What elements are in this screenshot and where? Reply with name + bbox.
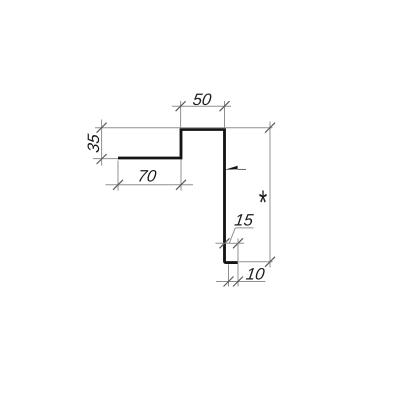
dimension 50: extension line left [180, 101, 182, 129]
dimension 10: tick left [224, 277, 234, 287]
dimension *: extension line bottom [239, 261, 273, 263]
profile outline (thick sheet-metal section) [118, 130, 238, 263]
dimension 70: extension line right [180, 160, 182, 191]
dimension *: tick top [265, 123, 275, 133]
dimension 10: dimension line [216, 281, 266, 283]
dimension 50: tick left [176, 101, 186, 111]
dimension 10: tick right [233, 277, 243, 287]
dimension 10: extension line left [228, 265, 230, 287]
dimension 70: tick right [176, 180, 186, 190]
extension line, top (shared by dim 35 and dim *) [95, 127, 273, 129]
dimension 35: tick bottom [97, 154, 107, 164]
dimension 35: dimension line [101, 120, 103, 166]
dimension 70: dimension line [106, 184, 194, 186]
dimension 15: leader shelf [235, 227, 253, 229]
extension line, bottom of dim 35 [93, 158, 118, 160]
dimension *: tick bottom [265, 257, 275, 267]
svg-text:70: 70 [137, 167, 159, 186]
dimension 15: tick left [220, 238, 230, 248]
dimension *: dimension line [269, 122, 271, 268]
dimension 70: extension line left [117, 161, 119, 191]
svg-text:15: 15 [233, 211, 255, 230]
svg-text:35: 35 [84, 132, 103, 154]
dimension 35: tick top [97, 123, 107, 133]
svg-text:50: 50 [192, 90, 214, 109]
dimension 50: dimension line [172, 105, 231, 107]
dimension 50: extension line right [224, 101, 226, 129]
dimension 15: dimension line [216, 242, 245, 244]
svg-text:*: * [258, 183, 267, 221]
material-side arrow marker [225, 166, 238, 170]
dimension 50: tick right [220, 101, 230, 111]
dimension 15: leader diagonal [229, 228, 235, 243]
dimension 15: tick right [233, 238, 243, 248]
dimension 70: tick left [113, 180, 123, 190]
shared extension line at lip end (dims 15 and 10) [237, 239, 239, 287]
svg-text:10: 10 [245, 265, 267, 284]
